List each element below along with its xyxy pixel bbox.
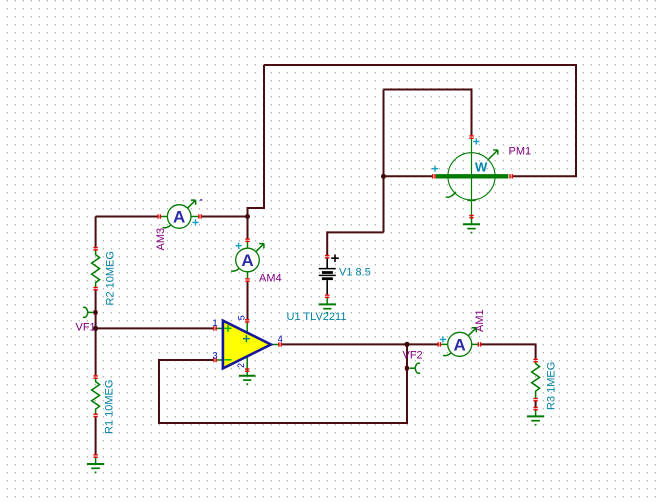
svg-text:U1 TLV2211: U1 TLV2211 xyxy=(287,311,347,323)
svg-text:PM1: PM1 xyxy=(509,146,532,158)
svg-text:3: 3 xyxy=(213,350,218,360)
svg-text:AM4: AM4 xyxy=(259,273,282,285)
svg-text:W: W xyxy=(475,160,488,175)
svg-text:V1 8.5: V1 8.5 xyxy=(339,267,371,279)
svg-text:R1 10MEG: R1 10MEG xyxy=(104,380,116,434)
svg-text:R3 1MEG: R3 1MEG xyxy=(546,362,558,410)
svg-text:A: A xyxy=(173,208,185,227)
svg-text:1: 1 xyxy=(213,318,218,328)
svg-text:5: 5 xyxy=(237,315,247,320)
svg-text:AM1: AM1 xyxy=(474,309,486,332)
svg-text:VF1: VF1 xyxy=(76,322,96,334)
svg-text:2: 2 xyxy=(236,363,246,368)
svg-text:AM3: AM3 xyxy=(155,228,167,251)
svg-text:A: A xyxy=(241,251,253,270)
svg-text:VF2: VF2 xyxy=(403,350,423,362)
svg-text:R2 10MEG: R2 10MEG xyxy=(105,251,117,305)
svg-text:4: 4 xyxy=(278,334,283,344)
svg-text:A: A xyxy=(454,336,466,355)
